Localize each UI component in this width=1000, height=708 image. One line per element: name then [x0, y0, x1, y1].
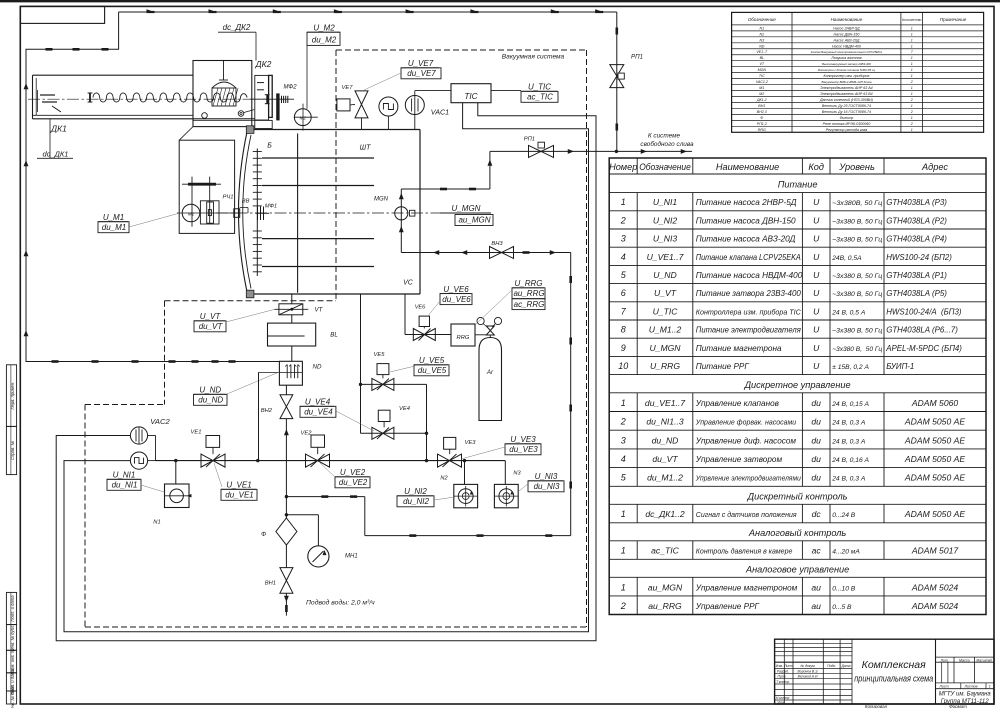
svg-text:Листов: Листов: [963, 685, 977, 689]
svg-text:du: du: [811, 417, 821, 427]
svg-text:Питание затвора 23В3-400: Питание затвора 23В3-400: [696, 289, 801, 298]
svg-text:Группа МТ11-112: Группа МТ11-112: [941, 698, 989, 705]
svg-text:9: 9: [621, 343, 626, 353]
svg-text:Питание РРГ: Питание РРГ: [696, 362, 750, 371]
svg-text:Масса: Масса: [959, 658, 970, 662]
svg-text:10: 10: [618, 361, 628, 371]
svg-text:au: au: [811, 601, 821, 611]
svg-text:1: 1: [911, 116, 913, 120]
svg-text:Наименование: Наименование: [831, 17, 863, 22]
svg-text:24 В, 0,5 А: 24 В, 0,5 А: [831, 309, 866, 316]
svg-text:VE5: VE5: [374, 352, 386, 358]
svg-text:du_NI1: du_NI1: [112, 481, 138, 490]
svg-text:Сигнал с датчиков положения: Сигнал с датчиков положения: [696, 511, 797, 519]
svg-text:U_VT: U_VT: [200, 312, 222, 321]
svg-text:24 В, 0,3 А: 24 В, 0,3 А: [831, 476, 866, 483]
svg-text:принципиальная схема: принципиальная схема: [854, 674, 933, 685]
svg-text:24 В, 0,15 А: 24 В, 0,15 А: [831, 401, 869, 408]
svg-text:~3х380 В, 50 Гц: ~3х380 В, 50 Гц: [832, 346, 882, 353]
svg-text:Т.контр.: Т.контр.: [776, 680, 790, 684]
svg-text:Перв. примен.: Перв. примен.: [10, 382, 15, 410]
svg-text:Управление затвором: Управление затвором: [695, 455, 783, 464]
svg-text:1: 1: [911, 26, 913, 30]
svg-text:3: 3: [621, 234, 626, 244]
svg-text:1: 1: [911, 62, 913, 66]
svg-text:HWS100-24/А (БП3): HWS100-24/А (БП3): [886, 307, 962, 316]
svg-text:Примечание: Примечание: [940, 17, 967, 22]
svg-text:VE3: VE3: [465, 440, 477, 446]
svg-text:U_VT: U_VT: [654, 288, 677, 298]
svg-text:ADAM 5050 АЕ: ADAM 5050 АЕ: [904, 454, 965, 464]
svg-text:ШТ: ШТ: [360, 145, 371, 152]
svg-text:ДК1: ДК1: [50, 124, 67, 134]
svg-text:МФ1: МФ1: [265, 204, 277, 210]
svg-text:U_М2: U_М2: [313, 23, 335, 32]
svg-text:Дата: Дата: [841, 664, 851, 668]
svg-text:М1: М1: [188, 211, 195, 216]
svg-text:Н.контр.: Н.контр.: [776, 696, 790, 700]
svg-text:24 В, 0,3 А: 24 В, 0,3 А: [831, 420, 866, 427]
svg-text:Б: Б: [267, 143, 272, 150]
svg-text:РЧ1: РЧ1: [223, 195, 234, 201]
svg-text:Наименование: Наименование: [716, 162, 779, 172]
svg-text:Насос НВДМ-400: Насос НВДМ-400: [832, 44, 861, 48]
svg-text:U_VE3: U_VE3: [510, 435, 536, 444]
svg-text:du_NI2: du_NI2: [403, 497, 429, 506]
svg-text:Разраб.: Разраб.: [777, 670, 789, 674]
svg-text:ADAM 5060: ADAM 5060: [911, 398, 959, 408]
svg-text:du: du: [811, 398, 821, 408]
svg-text:dc: dc: [812, 509, 822, 519]
svg-text:VAC2: VAC2: [150, 417, 170, 426]
svg-text:2: 2: [620, 601, 626, 611]
svg-text:U_VE1..7: U_VE1..7: [647, 252, 685, 262]
svg-text:U_VE6: U_VE6: [443, 285, 469, 294]
svg-text:VT: VT: [315, 307, 324, 314]
svg-text:dc_ДК1..2: dc_ДК1..2: [645, 509, 685, 519]
svg-text:du_NI3: du_NI3: [534, 482, 560, 491]
svg-text:1: 1: [989, 685, 991, 689]
svg-text:~3х380 В, 50 Гц: ~3х380 В, 50 Гц: [832, 237, 882, 244]
svg-text:Масштаб: Масштаб: [976, 658, 992, 662]
svg-text:1: 1: [911, 128, 913, 132]
svg-text:du_NI1..3: du_NI1..3: [646, 417, 683, 427]
svg-text:VAC1,2: VAC1,2: [756, 80, 768, 84]
svg-text:1: 1: [911, 104, 913, 108]
svg-text:ВН2: ВН2: [261, 408, 273, 414]
svg-text:U: U: [813, 215, 820, 225]
svg-text:Вентиль Ду 25 ГОСТ9086-74: Вентиль Ду 25 ГОСТ9086-74: [822, 104, 871, 108]
svg-text:du: du: [811, 435, 821, 445]
svg-text:Справ. №: Справ. №: [10, 441, 15, 460]
svg-text:Реле потока ИРЭК-0300060: Реле потока ИРЭК-0300060: [823, 122, 871, 126]
svg-text:2: 2: [620, 215, 626, 225]
svg-text:BL: BL: [330, 332, 338, 339]
svg-text:N2: N2: [759, 32, 764, 36]
svg-text:ВН2,3: ВН2,3: [757, 110, 767, 114]
svg-text:du_ND: du_ND: [652, 435, 679, 445]
svg-text:1: 1: [621, 582, 626, 592]
svg-text:U: U: [813, 197, 820, 207]
svg-text:ВН3: ВН3: [491, 241, 503, 247]
svg-text:U_NI3: U_NI3: [535, 472, 558, 481]
svg-text:U_ND: U_ND: [653, 270, 676, 280]
svg-text:Лист: Лист: [938, 685, 948, 689]
svg-text:ВН1: ВН1: [758, 104, 765, 108]
svg-text:Высоковакуумный затвор 23В3-40: Высоковакуумный затвор 23В3-400: [822, 62, 871, 66]
svg-text:1: 1: [621, 197, 626, 207]
svg-text:2: 2: [910, 122, 913, 126]
svg-text:U_TIC: U_TIC: [653, 306, 679, 316]
svg-text:U_VE4: U_VE4: [305, 398, 331, 407]
svg-text:MGN: MGN: [758, 68, 767, 72]
svg-text:ДК1,2: ДК1,2: [756, 98, 767, 102]
svg-text:ac_TIC: ac_TIC: [527, 93, 553, 102]
svg-text:Ф: Ф: [261, 531, 266, 538]
svg-text:GTH4038LA (Р2): GTH4038LA (Р2): [886, 216, 947, 225]
svg-text:Насос ДВН-150: Насос ДВН-150: [833, 32, 859, 36]
svg-text:1: 1: [911, 44, 913, 48]
svg-text:ADAM 5017: ADAM 5017: [911, 546, 960, 556]
svg-text:ВН1: ВН1: [265, 581, 276, 587]
svg-text:Управление диф. насосом: Управление диф. насосом: [695, 436, 797, 445]
svg-text:TIC: TIC: [759, 74, 765, 78]
svg-text:ADAM 5050 АЕ: ADAM 5050 АЕ: [904, 435, 965, 445]
svg-text:au_MGN: au_MGN: [458, 216, 490, 225]
svg-text:BL: BL: [760, 56, 764, 60]
svg-text:Питание насоса 2НВР-5Д: Питание насоса 2НВР-5Д: [696, 198, 797, 207]
svg-text:МН1: МН1: [345, 554, 358, 560]
svg-text:du_VE6: du_VE6: [442, 295, 471, 304]
svg-text:du_VE1..7: du_VE1..7: [645, 398, 686, 408]
svg-text:Упрвление электродвигателями: Упрвление электродвигателями: [695, 475, 801, 483]
svg-text:± 15В, 0,2 А: ± 15В, 0,2 А: [832, 364, 869, 371]
svg-text:Обозначение: Обозначение: [639, 162, 691, 172]
svg-text:Магнетрон с блоком питания 5кВ: Магнетрон с блоком питания 5кВт/95 гц: [818, 68, 876, 72]
svg-text:24 В, 0,3 А: 24 В, 0,3 А: [831, 438, 866, 445]
svg-text:1: 1: [621, 398, 626, 408]
svg-text:ADAM 5024: ADAM 5024: [911, 582, 959, 592]
svg-text:du_VE1: du_VE1: [225, 491, 253, 500]
svg-text:RRG: RRG: [457, 335, 470, 341]
svg-text:N3: N3: [513, 471, 521, 477]
svg-text:Регулятор расхода газа: Регулятор расхода газа: [826, 128, 868, 132]
svg-text:Контроллера изм. прибора TIC: Контроллера изм. прибора TIC: [696, 308, 802, 316]
svg-text:0...24 В: 0...24 В: [832, 512, 856, 519]
svg-text:U: U: [813, 252, 820, 262]
svg-text:Вакуумметр ВМБ-2+ВМБ-14/5 блок: Вакуумметр ВМБ-2+ВМБ-14/5 блока: [821, 80, 871, 84]
svg-text:МГТУ им. Баумана: МГТУ им. Баумана: [939, 690, 991, 697]
svg-text:Питание насоса ДВН-150: Питание насоса ДВН-150: [696, 216, 796, 225]
svg-text:ac_TIC: ac_TIC: [651, 546, 679, 556]
svg-text:U_VE2: U_VE2: [340, 468, 366, 477]
svg-text:РП1: РП1: [631, 54, 643, 61]
svg-text:U_NI3: U_NI3: [653, 234, 678, 244]
svg-text:MGN: MGN: [374, 197, 389, 203]
svg-text:0...10 В: 0...10 В: [832, 585, 856, 592]
svg-text:ac: ac: [812, 546, 822, 556]
svg-text:U: U: [813, 361, 820, 371]
svg-text:au_RRG: au_RRG: [648, 601, 682, 611]
svg-text:Контроль давления в камере: Контроль давления в камере: [696, 548, 793, 556]
svg-text:2: 2: [620, 417, 626, 427]
svg-text:Изм.: Изм.: [776, 664, 783, 668]
svg-text:Питание магнетрона: Питание магнетрона: [696, 344, 782, 353]
svg-text:N3: N3: [759, 38, 764, 42]
svg-text:TIC: TIC: [464, 92, 477, 101]
svg-text:Уровень: Уровень: [838, 162, 875, 172]
svg-text:Номер: Номер: [609, 162, 637, 172]
svg-text:Питание: Питание: [778, 180, 818, 190]
svg-text:Аналоговый контроль: Аналоговый контроль: [748, 528, 846, 538]
svg-text:U: U: [813, 288, 820, 298]
svg-text:VE6: VE6: [415, 305, 426, 311]
svg-text:К системе: К системе: [648, 133, 681, 140]
svg-text:GTH4038LA (Р4): GTH4038LA (Р4): [886, 235, 947, 244]
svg-text:du_VE5: du_VE5: [418, 366, 447, 375]
svg-text:U_RRG: U_RRG: [650, 361, 680, 371]
svg-text:МФ2: МФ2: [283, 85, 297, 91]
svg-text:VT: VT: [760, 62, 765, 66]
svg-text:U_TIC: U_TIC: [528, 83, 551, 92]
svg-text:2: 2: [910, 110, 913, 114]
svg-text:U_NI2: U_NI2: [404, 487, 427, 496]
svg-text:Дискретный контроль: Дискретный контроль: [747, 491, 848, 501]
svg-text:HWS100-24 (БП2): HWS100-24 (БП2): [886, 253, 952, 262]
svg-text:Подвод воды: 2,0 м³/ч: Подвод воды: 2,0 м³/ч: [306, 599, 375, 607]
svg-text:Датчик конечный (НПЗ-300ВИ): Датчик конечный (НПЗ-300ВИ): [819, 98, 873, 102]
svg-text:U_M1..2: U_M1..2: [649, 325, 682, 335]
svg-text:Ar: Ar: [486, 369, 494, 376]
svg-text:РП1: РП1: [524, 137, 535, 143]
svg-text:0...5 В: 0...5 В: [832, 604, 852, 611]
svg-text:2: 2: [910, 98, 913, 102]
svg-text:24 В, 0,16 А: 24 В, 0,16 А: [831, 457, 869, 464]
svg-text:U: U: [813, 234, 820, 244]
svg-text:du_М1: du_М1: [102, 223, 126, 232]
svg-text:Количество: Количество: [902, 18, 921, 22]
svg-text:du_ND: du_ND: [198, 396, 223, 405]
svg-text:Подп.: Подп.: [827, 664, 836, 668]
svg-text:du: du: [811, 473, 821, 483]
svg-text:1: 1: [911, 74, 913, 78]
svg-text:VE7: VE7: [342, 85, 354, 91]
svg-text:Утв.: Утв.: [777, 700, 785, 704]
svg-text:~3х380 В, 50 Гц: ~3х380 В, 50 Гц: [832, 273, 882, 280]
svg-text:1: 1: [621, 509, 626, 519]
svg-text:1: 1: [911, 92, 913, 96]
svg-text:1: 1: [911, 86, 913, 90]
svg-text:Аналоговое управление: Аналоговое управление: [745, 564, 849, 574]
svg-text:Инв. № дубл.: Инв. № дубл.: [10, 625, 15, 651]
svg-text:~3х380 В, 50 Гц: ~3х380 В, 50 Гц: [832, 291, 882, 298]
svg-text:ND: ND: [313, 364, 322, 371]
svg-text:~3х380В, 50 Гц: ~3х380В, 50 Гц: [832, 200, 882, 207]
svg-text:ДК2: ДК2: [255, 59, 272, 69]
svg-text:du_M1..2: du_M1..2: [647, 473, 683, 483]
svg-text:U_М1: U_М1: [103, 213, 124, 222]
svg-text:dc_ДК1: dc_ДК1: [43, 150, 69, 159]
svg-text:du_VE2: du_VE2: [339, 478, 368, 487]
svg-text:Управление магнетроном: Управление магнетроном: [695, 583, 798, 592]
svg-text:U: U: [813, 270, 820, 280]
svg-text:Великий А.И.: Великий А.И.: [798, 675, 819, 679]
svg-text:Код: Код: [808, 162, 824, 172]
svg-text:au_RRG: au_RRG: [513, 289, 544, 298]
svg-text:Подп. и дата: Подп. и дата: [10, 595, 15, 622]
svg-text:ac_RRG: ac_RRG: [514, 300, 545, 309]
svg-text:Воронов В.Э.: Воронов В.Э.: [798, 670, 819, 674]
svg-text:du_VT: du_VT: [652, 454, 678, 464]
svg-text:Питание насоса НВДМ-400: Питание насоса НВДМ-400: [696, 271, 803, 280]
svg-text:свободного слива: свободного слива: [640, 140, 694, 148]
svg-text:du: du: [811, 454, 821, 464]
svg-text:~3х380 В, 50 Гц: ~3х380 В, 50 Гц: [832, 328, 882, 335]
svg-text:Обозначение: Обозначение: [748, 17, 777, 22]
svg-text:U: U: [813, 343, 820, 353]
svg-text:U_NI2: U_NI2: [653, 215, 678, 225]
svg-text:du_М2: du_М2: [312, 36, 337, 45]
svg-text:U_VE7: U_VE7: [408, 59, 434, 68]
svg-text:Инв. № подл.: Инв. № подл.: [10, 685, 15, 708]
svg-text:U_NI1: U_NI1: [653, 197, 678, 207]
svg-text:Управление РРГ: Управление РРГ: [695, 602, 760, 611]
svg-text:Насос 2НВР-5Д: Насос 2НВР-5Д: [833, 26, 860, 30]
svg-text:VE1..7: VE1..7: [756, 50, 768, 54]
svg-text:Электродвигатель АИР 63 А4: Электродвигатель АИР 63 А4: [820, 86, 872, 90]
svg-text:№ докум.: № докум.: [801, 664, 816, 668]
svg-text:Управление форвак. насосами: Управление форвак. насосами: [695, 420, 797, 427]
svg-text:4: 4: [621, 252, 626, 262]
svg-text:U: U: [813, 306, 820, 316]
svg-text:du_VT: du_VT: [199, 322, 224, 331]
svg-text:du_VE4: du_VE4: [304, 408, 333, 417]
svg-text:Контроллер изм. приборов: Контроллер изм. приборов: [823, 74, 869, 78]
svg-text:1: 1: [911, 38, 913, 42]
svg-text:VAC1: VAC1: [431, 108, 449, 117]
svg-text:ADAM 5050 АЕ: ADAM 5050 АЕ: [904, 473, 965, 483]
svg-text:Фильтр: Фильтр: [840, 116, 854, 120]
svg-text:U_NI1: U_NI1: [113, 471, 136, 480]
svg-text:1: 1: [911, 56, 913, 60]
svg-text:1: 1: [621, 546, 626, 556]
svg-text:2: 2: [910, 80, 913, 84]
svg-text:РП1,2: РП1,2: [757, 122, 767, 126]
svg-text:1: 1: [911, 68, 913, 72]
svg-text:U_RRG: U_RRG: [514, 279, 542, 288]
svg-text:Клапан Вакуумный электромагнит: Клапан Вакуумный электромагнитный LCPV25…: [811, 50, 882, 54]
svg-text:24В, 0,5А: 24В, 0,5А: [831, 255, 862, 262]
svg-text:VE1: VE1: [191, 430, 202, 436]
svg-text:GTH4038LA (Р5): GTH4038LA (Р5): [886, 289, 947, 298]
svg-text:Ловушка азотная: Ловушка азотная: [830, 56, 861, 60]
svg-text:N1: N1: [153, 520, 160, 526]
svg-text:VE4: VE4: [399, 406, 410, 412]
svg-text:Комплексная: Комплексная: [862, 659, 926, 671]
svg-text:N1: N1: [759, 26, 764, 30]
svg-text:U_ND: U_ND: [199, 386, 221, 395]
svg-text:БУИП-1: БУИП-1: [886, 362, 914, 371]
svg-text:ADAM 5050 АЕ: ADAM 5050 АЕ: [904, 509, 965, 519]
svg-text:1: 1: [911, 32, 913, 36]
svg-text:M1: M1: [759, 86, 764, 90]
svg-text:du_VE7: du_VE7: [407, 69, 436, 78]
svg-text:APEL-M-5PDC (БП4): APEL-M-5PDC (БП4): [885, 344, 962, 353]
svg-text:U_MGN: U_MGN: [452, 204, 481, 213]
svg-text:Лит.: Лит.: [939, 658, 948, 662]
svg-text:Лист: Лист: [783, 664, 793, 668]
svg-text:4: 4: [621, 454, 626, 464]
svg-text:du_VE3: du_VE3: [509, 445, 538, 454]
svg-text:Ф: Ф: [760, 116, 763, 120]
svg-text:RRG: RRG: [758, 128, 766, 132]
svg-text:Дискретное управление: Дискретное управление: [744, 380, 851, 390]
svg-text:Питание насоса АВЗ-20Д: Питание насоса АВЗ-20Д: [696, 235, 796, 244]
svg-text:VC: VC: [403, 280, 414, 287]
svg-text:Питание клапана LCPV25EKA: Питание клапана LCPV25EKA: [696, 253, 801, 262]
svg-text:U_VE1: U_VE1: [226, 481, 251, 490]
svg-text:GTH4038LA (Р3): GTH4038LA (Р3): [886, 198, 947, 207]
svg-text:au_MGN: au_MGN: [648, 582, 683, 592]
svg-text:ADAM 5024: ADAM 5024: [911, 601, 959, 611]
svg-text:VE2: VE2: [301, 431, 313, 437]
svg-text:U_VE5: U_VE5: [419, 356, 445, 365]
svg-text:U: U: [813, 325, 820, 335]
svg-text:6: 6: [621, 288, 626, 298]
svg-text:Электродвигатель АИР 63 В4: Электродвигатель АИР 63 В4: [820, 92, 872, 96]
svg-text:Питание электродвигателя: Питание электродвигателя: [696, 326, 802, 335]
svg-text:~3х380 В, 50 Гц: ~3х380 В, 50 Гц: [832, 218, 882, 225]
svg-text:4...20 мА: 4...20 мА: [832, 549, 860, 556]
svg-text:Адрес: Адрес: [921, 162, 948, 172]
svg-text:Управление клапанов: Управление клапанов: [695, 399, 780, 408]
svg-text:U_MGN: U_MGN: [649, 343, 681, 353]
svg-text:Вакуумная система: Вакуумная система: [502, 54, 565, 61]
svg-text:ADAM 5050 АЕ: ADAM 5050 АЕ: [904, 417, 965, 427]
svg-text:ND: ND: [759, 44, 765, 48]
svg-text:M2: M2: [759, 92, 764, 96]
svg-text:au: au: [811, 582, 821, 592]
svg-text:Вентиль Ду 16 ГОСТ9086-74: Вентиль Ду 16 ГОСТ9086-74: [822, 110, 871, 114]
svg-text:8: 8: [621, 325, 626, 335]
svg-text:dc_ДК2: dc_ДК2: [223, 23, 251, 32]
svg-text:GTH4038LA (Р1): GTH4038LA (Р1): [886, 271, 947, 280]
svg-text:Насос АВЗ-20Д: Насос АВЗ-20Д: [834, 38, 860, 42]
svg-text:Пров.: Пров.: [778, 675, 787, 679]
svg-text:GTH4038LA (Р6...7): GTH4038LA (Р6...7): [886, 326, 958, 335]
svg-text:N2: N2: [440, 476, 448, 482]
svg-text:3: 3: [621, 435, 626, 445]
